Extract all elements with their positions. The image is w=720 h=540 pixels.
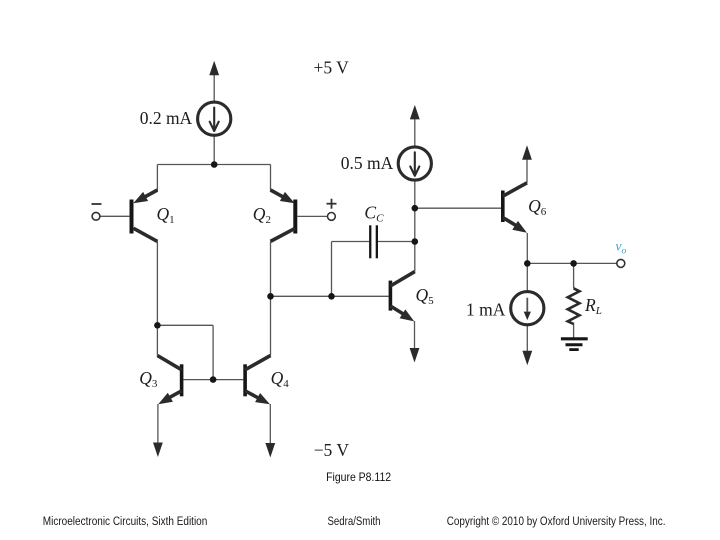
svg-text:1 mA: 1 mA <box>466 300 506 320</box>
svg-text:Q1: Q1 <box>157 204 175 226</box>
svg-text:Q5: Q5 <box>416 285 435 307</box>
svg-text:Sedra/Smith: Sedra/Smith <box>328 514 381 528</box>
svg-text:Microelectronic Circuits, Sixt: Microelectronic Circuits, Sixth Edition <box>43 514 208 528</box>
svg-text:Q3: Q3 <box>139 368 158 390</box>
svg-text:Copyright © 2010 by Oxford Uni: Copyright © 2010 by Oxford University Pr… <box>447 514 666 528</box>
svg-text:Figure P8.112: Figure P8.112 <box>326 471 391 484</box>
svg-text:Q6: Q6 <box>528 196 547 218</box>
svg-text:vo: vo <box>616 239 627 257</box>
svg-text:RL: RL <box>584 295 602 317</box>
svg-text:CC: CC <box>364 203 384 225</box>
svg-text:0.2 mA: 0.2 mA <box>140 108 193 128</box>
svg-text:Q4: Q4 <box>271 368 290 390</box>
svg-text:Q2: Q2 <box>253 204 271 226</box>
svg-text:+5 V: +5 V <box>314 57 350 77</box>
svg-text:−5 V: −5 V <box>314 440 350 460</box>
svg-text:0.5 mA: 0.5 mA <box>341 153 394 173</box>
